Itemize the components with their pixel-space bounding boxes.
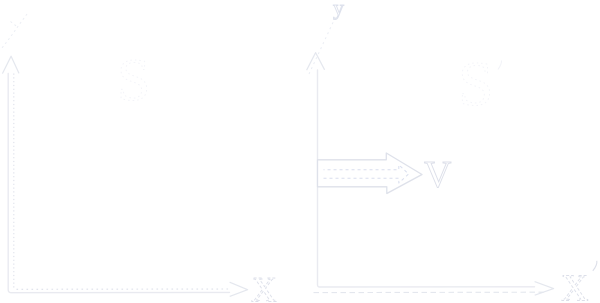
svg-text:S: S bbox=[458, 48, 494, 119]
left frame S : y-axis inner dotted line bbox=[13, 74, 15, 289]
svg-text:y: y bbox=[333, 0, 344, 20]
right frame S' : y'-axis arrowhead bbox=[307, 53, 325, 71]
right frame S' : x'-axis arrowhead bbox=[535, 282, 554, 296]
right frame S' : y'-axis line bbox=[318, 70, 535, 287]
velocity block arrow (white filled, outlined) bbox=[318, 153, 423, 194]
left frame S : y-axis outer line bbox=[8, 74, 229, 293]
left frame S : label y (sketchy) bbox=[2, 14, 28, 49]
right frame S' : dotted leader to y' label bbox=[309, 16, 336, 74]
left frame S : y-axis arrowhead bbox=[2, 56, 19, 73]
svg-text:X: X bbox=[251, 270, 277, 303]
svg-text:S: S bbox=[117, 47, 150, 113]
inner dashed arrow of v bbox=[324, 165, 409, 183]
svg-text:V: V bbox=[424, 154, 452, 196]
right frame S' : x'-axis lower dashed line bbox=[314, 291, 547, 293]
svg-text:X: X bbox=[561, 268, 588, 303]
left frame S : x-axis inner dotted line bbox=[17, 288, 230, 290]
left frame S : x-axis arrowhead bbox=[230, 282, 248, 296]
right frame S' : prime of X' bbox=[593, 261, 597, 271]
